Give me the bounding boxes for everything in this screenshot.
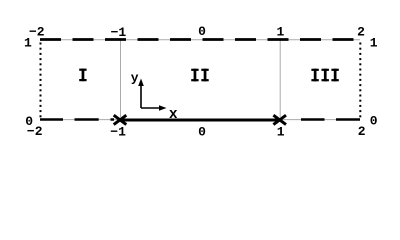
svg-text:0: 0 <box>370 114 378 129</box>
svg-text:2: 2 <box>357 25 365 40</box>
svg-text:−1: −1 <box>110 125 126 140</box>
svg-text:1: 1 <box>277 125 285 140</box>
svg-text:x: x <box>169 107 178 123</box>
svg-text:−1: −1 <box>111 25 127 40</box>
svg-text:1: 1 <box>370 35 378 50</box>
svg-text:0: 0 <box>25 114 33 129</box>
svg-text:1: 1 <box>24 36 32 51</box>
svg-text:1: 1 <box>276 24 284 39</box>
svg-text:0: 0 <box>198 124 206 139</box>
svg-text:0: 0 <box>198 24 206 39</box>
svg-text:2: 2 <box>358 124 366 139</box>
svg-text:y: y <box>131 71 139 86</box>
